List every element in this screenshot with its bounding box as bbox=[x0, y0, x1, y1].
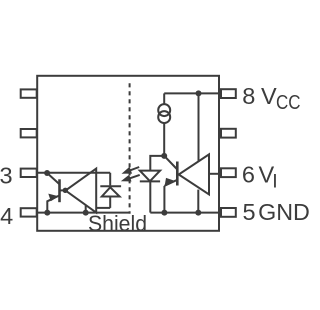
junction node U1 apex / Q1 base bbox=[63, 188, 68, 193]
wire Q1 base to amplifier U1 apex bbox=[60, 189, 64, 191]
pin 6 bbox=[221, 168, 236, 177]
wire GND stub to amplifier U2 bbox=[197, 190, 199, 213]
wire VCC pin 8 rail bbox=[164, 92, 219, 94]
svg-text:I: I bbox=[272, 170, 277, 192]
light arrow head upper bbox=[122, 167, 133, 174]
transistor Q1 base bar bbox=[58, 179, 61, 202]
transistor Q1 emitter bbox=[47, 195, 59, 212]
current source I1 bbox=[158, 104, 170, 116]
wire pin 3 rail and photodiode box top bbox=[37, 172, 110, 174]
svg-text:Shield: Shield bbox=[88, 211, 147, 236]
wire VCC stub to amplifier U2 bbox=[198, 93, 200, 161]
transistor Q2 collector bbox=[164, 156, 177, 170]
light arrow shaft lower bbox=[128, 175, 140, 179]
pin 2 (top left, NC) bbox=[21, 89, 37, 97]
photodiode D1 bbox=[102, 187, 120, 196]
junction node U2 gnd stub bbox=[195, 210, 201, 216]
svg-text:5: 5 bbox=[243, 199, 256, 225]
pin 7 (NC) bbox=[221, 129, 236, 138]
wire pin 6 VI input bbox=[209, 173, 219, 175]
wire GND stub amplifier U1 bbox=[85, 205, 87, 212]
pin 1 (left, NC) bbox=[21, 129, 37, 137]
wire node A to LED anode bbox=[150, 156, 164, 171]
wire pin 4 GND2 rail bbox=[37, 212, 130, 214]
transistor Q2 emitter bbox=[164, 180, 177, 186]
wire GND rail right (pin 5) bbox=[150, 212, 219, 214]
svg-text:3: 3 bbox=[0, 162, 13, 188]
svg-text:GND: GND bbox=[258, 199, 310, 225]
LED D2 emitter diode bbox=[140, 171, 160, 182]
svg-text:CC: CC bbox=[276, 91, 301, 114]
wire VCC to current source bbox=[163, 93, 165, 104]
pin 8 bbox=[221, 89, 236, 98]
transistor Q2 emitter arrow bbox=[165, 178, 176, 185]
junction node A current source / collector bbox=[161, 153, 167, 159]
op-amp U1 output amplifier bbox=[66, 169, 97, 213]
junction node VCC stub bbox=[196, 90, 202, 96]
pin 5 bbox=[221, 208, 236, 217]
junction node pin3/collector bbox=[44, 170, 50, 176]
junction node U1 gnd stub bbox=[83, 210, 89, 216]
IC package outline bbox=[37, 76, 219, 231]
wire current source to node A bbox=[163, 123, 165, 156]
svg-text:6: 6 bbox=[242, 162, 255, 188]
photodiode D1 cathode bar bbox=[100, 185, 121, 187]
transistor Q2 base bar bbox=[176, 162, 179, 186]
op-amp U2 input buffer bbox=[179, 154, 209, 194]
wire LED cathode to GND rail bbox=[149, 181, 151, 212]
pin 3 bbox=[21, 169, 37, 177]
svg-text:V: V bbox=[261, 83, 277, 109]
wire emitter Q2 to GND rail bbox=[163, 186, 165, 213]
photodiode box right top segment bbox=[109, 173, 111, 186]
pin 4 bbox=[21, 208, 37, 216]
photodiode box right bottom segment bbox=[109, 197, 111, 208]
junction node Q2 emitter / GND bbox=[161, 210, 167, 216]
light arrow head lower bbox=[121, 175, 132, 182]
shield isolation dashed line bbox=[129, 83, 131, 213]
svg-text:4: 4 bbox=[0, 203, 13, 229]
transistor Q1 emitter arrow bbox=[48, 194, 58, 202]
svg-text:8: 8 bbox=[242, 83, 255, 109]
junction node pin4/emitter bbox=[44, 210, 50, 216]
transistor Q1 collector bbox=[47, 173, 59, 184]
light arrow shaft upper bbox=[128, 167, 139, 171]
photodiode box bottom bbox=[96, 207, 110, 209]
